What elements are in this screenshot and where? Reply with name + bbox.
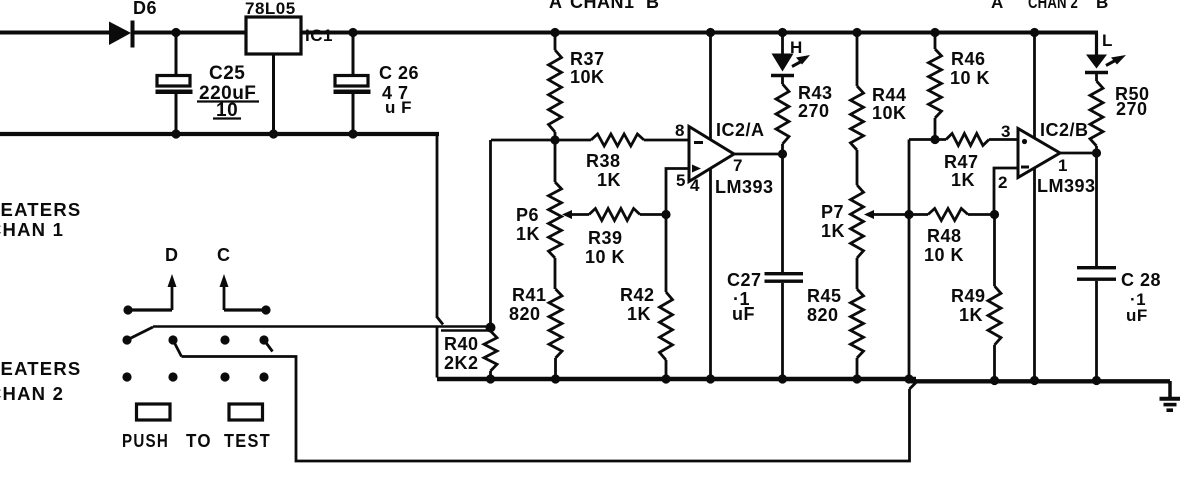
svg-text:TO: TO bbox=[186, 430, 212, 451]
wire: vertical from lower rail down left of R40 bbox=[436, 134, 439, 318]
junction lower rail / IC1 gnd bbox=[269, 129, 278, 138]
svg-text:CHAN1: CHAN1 bbox=[570, 0, 635, 12]
junction top rail / R37 bbox=[550, 28, 559, 37]
junction bottom rail / R42 bbox=[661, 374, 670, 383]
wire: vertical R47 node to bottom rail bbox=[908, 140, 911, 380]
svg-text:TEST: TEST bbox=[224, 430, 271, 451]
ground symbol bbox=[1168, 381, 1172, 397]
junction output / R43 / C27 bbox=[778, 149, 787, 158]
potentiometer P6 bbox=[554, 140, 557, 182]
resistor R47 bbox=[946, 134, 989, 146]
svg-text:8: 8 bbox=[675, 121, 685, 140]
svg-text:1K: 1K bbox=[821, 221, 845, 241]
capacitor C28 bbox=[1095, 153, 1098, 266]
lower contact dots bbox=[122, 372, 131, 381]
svg-text:HEATERS: HEATERS bbox=[0, 199, 81, 220]
svg-text:C: C bbox=[217, 245, 231, 265]
node C arrow bbox=[223, 285, 226, 310]
junction R40 top node bbox=[486, 323, 496, 333]
contact dot bbox=[123, 305, 132, 314]
svg-text:IC2/B: IC2/B bbox=[1040, 120, 1089, 140]
svg-text:4: 4 bbox=[690, 176, 700, 195]
svg-text:A: A bbox=[549, 0, 563, 12]
svg-text:B: B bbox=[646, 0, 660, 12]
svg-text:L: L bbox=[1102, 31, 1113, 50]
switch 1 upper contact wires bbox=[128, 308, 172, 311]
svg-text:D6: D6 bbox=[133, 0, 157, 18]
resistor R50 bbox=[1095, 73, 1098, 82]
IC2/B power line crossing bbox=[1033, 34, 1036, 138]
resistor R37 bbox=[554, 34, 557, 50]
svg-text:R44: R44 bbox=[872, 85, 907, 105]
svg-text:1K: 1K bbox=[951, 170, 975, 190]
LED H bbox=[781, 34, 784, 54]
wire: node down to R40 bbox=[489, 140, 492, 328]
svg-text:uF: uF bbox=[732, 304, 755, 324]
capacitor C25 bbox=[175, 34, 178, 75]
resistor R43 bbox=[781, 76, 784, 85]
switch wire to R40 node bbox=[153, 325, 490, 328]
wire: 78L05 ground stub bbox=[272, 54, 275, 134]
junction bottom rail / R47 node bbox=[904, 374, 913, 383]
wire: R47 node line bbox=[909, 138, 946, 141]
svg-text:R46: R46 bbox=[951, 49, 986, 69]
IC2/B minus marker bbox=[1021, 166, 1029, 169]
svg-text:CHAN 1: CHAN 1 bbox=[0, 219, 64, 240]
wire: top rail diode to regulator bbox=[131, 31, 246, 35]
svg-text:R43: R43 bbox=[798, 83, 833, 103]
wire: top supply rail segment before diode bbox=[0, 31, 111, 35]
wire: inverting node line to R38 and pin 8 bbox=[491, 139, 591, 142]
push button 1 bbox=[137, 404, 171, 420]
svg-text:H: H bbox=[790, 38, 803, 57]
contact dot bbox=[220, 335, 229, 344]
svg-text:A: A bbox=[991, 0, 1004, 12]
svg-text:D: D bbox=[165, 245, 179, 265]
svg-text:R49: R49 bbox=[951, 286, 986, 306]
svg-text:R47: R47 bbox=[944, 152, 979, 172]
op-amp IC2/B triangle bbox=[1018, 129, 1060, 178]
wire R47 to op-amp in+ bbox=[989, 138, 1018, 141]
LED H arrow bbox=[792, 61, 803, 67]
switch 2 second lever bbox=[264, 340, 273, 352]
junction top rail / C25 bbox=[171, 28, 180, 37]
svg-text:1K: 1K bbox=[597, 170, 621, 190]
svg-text:R37: R37 bbox=[570, 49, 605, 69]
resistor R48 bbox=[928, 209, 968, 221]
node D arrow bbox=[171, 285, 174, 310]
svg-text:B: B bbox=[1096, 0, 1109, 12]
svg-text:P6: P6 bbox=[516, 205, 539, 225]
svg-text:10 K: 10 K bbox=[924, 245, 964, 265]
switch 1 lever bbox=[127, 327, 153, 340]
junction bottom rail / R41 bbox=[551, 374, 560, 383]
resistor R38 bbox=[591, 134, 644, 146]
LED L bbox=[1095, 33, 1098, 55]
svg-text:HEATERS: HEATERS bbox=[0, 358, 81, 379]
svg-text:R45: R45 bbox=[807, 286, 842, 306]
switch 2 lever bbox=[173, 340, 182, 357]
svg-text:P7: P7 bbox=[821, 202, 844, 222]
svg-text:IC2/A: IC2/A bbox=[716, 120, 765, 140]
svg-text:C27: C27 bbox=[727, 270, 762, 290]
resistor R49 bbox=[993, 215, 996, 287]
svg-text:10 K: 10 K bbox=[585, 247, 625, 267]
junction bottom rail / R45 bbox=[852, 374, 861, 383]
svg-text:1K: 1K bbox=[959, 305, 983, 325]
junction lower rail / C26 bbox=[348, 129, 357, 138]
svg-text:820: 820 bbox=[509, 304, 541, 324]
junction output / R50 / C28 bbox=[1092, 148, 1101, 157]
IC2/A plus input arrow marker bbox=[692, 165, 701, 173]
svg-text:C 26: C 26 bbox=[379, 63, 419, 83]
resistor R44 bbox=[856, 34, 859, 86]
switch 2 loop wire bbox=[182, 357, 910, 462]
junction top rail / IC2B supply bbox=[1030, 28, 1039, 37]
wire: lower-left return rail bbox=[0, 132, 439, 136]
junction top rail / IC2A supply bbox=[706, 28, 715, 37]
svg-text:C 28: C 28 bbox=[1121, 270, 1161, 290]
diode D6 bbox=[109, 22, 131, 46]
regulator IC1 78L05 box bbox=[246, 17, 301, 54]
svg-text:2K2: 2K2 bbox=[444, 353, 479, 373]
push button 2 bbox=[229, 404, 263, 420]
resistor R41 bbox=[554, 258, 557, 289]
svg-text:LM393: LM393 bbox=[715, 177, 774, 197]
resistor R46 bbox=[934, 34, 937, 49]
svg-text:5: 5 bbox=[676, 171, 686, 190]
svg-text:uF: uF bbox=[1126, 306, 1148, 325]
junction R46 / R47 node bbox=[930, 135, 939, 144]
svg-text:CHAN 2: CHAN 2 bbox=[1028, 0, 1078, 12]
P6 wiper arrow bbox=[562, 210, 572, 219]
junction node / R37 / P6 bbox=[550, 135, 559, 144]
svg-text:R38: R38 bbox=[586, 151, 621, 171]
svg-text:1: 1 bbox=[1058, 156, 1068, 175]
junction bottom rail / R40 bbox=[486, 374, 495, 383]
junction R48 / in- / R49 bbox=[990, 210, 999, 219]
junction bottom rail / IC2A gnd bbox=[706, 374, 715, 383]
junction top rail / R46 bbox=[930, 28, 939, 37]
IC2/B plus marker bbox=[1022, 139, 1027, 144]
potentiometer P7 bbox=[856, 150, 859, 185]
junction lower rail / C25 bbox=[171, 129, 180, 138]
svg-text:270: 270 bbox=[798, 101, 830, 121]
P7 wiper arrow bbox=[864, 210, 874, 219]
svg-text:1K: 1K bbox=[516, 224, 540, 244]
svg-text:2: 2 bbox=[998, 173, 1008, 192]
junction top rail / R44 bbox=[852, 28, 861, 37]
svg-text:10K: 10K bbox=[872, 103, 907, 123]
wire: IC2/B output bbox=[1060, 152, 1097, 155]
svg-text:PUSH: PUSH bbox=[122, 430, 169, 451]
wire: R48 to op-amp in- bbox=[994, 168, 1018, 215]
svg-text:CHAN 2: CHAN 2 bbox=[0, 383, 64, 404]
svg-text:7: 7 bbox=[733, 156, 743, 175]
op-amp IC2/A triangle bbox=[689, 127, 734, 182]
svg-text:C25: C25 bbox=[209, 63, 245, 84]
capacitor C27 bbox=[781, 154, 784, 272]
svg-text:R41: R41 bbox=[512, 285, 547, 305]
svg-text:10K: 10K bbox=[570, 67, 605, 87]
svg-text:3: 3 bbox=[1001, 122, 1011, 141]
junction R39 / in+ / R42 bbox=[661, 210, 670, 219]
capacitor C26 bbox=[352, 34, 355, 75]
junction top rail / LED H bbox=[778, 28, 787, 37]
wire R38 to op-amp in- bbox=[644, 139, 689, 142]
svg-text:LM393: LM393 bbox=[1037, 176, 1096, 196]
junction top rail / C26 bbox=[348, 28, 357, 37]
wire: op-amp in+ from junction bbox=[666, 169, 689, 215]
junction bottom rail / C28 bbox=[1092, 376, 1101, 385]
wire: IC2/A output bbox=[734, 153, 783, 156]
IC2/A minus marker bbox=[694, 141, 703, 144]
IC2/A power line crossing bbox=[709, 34, 712, 139]
svg-text:R48: R48 bbox=[927, 226, 962, 246]
svg-text:R42: R42 bbox=[620, 285, 655, 305]
LED L arrow bbox=[1106, 60, 1117, 66]
contact dot bbox=[261, 305, 270, 314]
bottom ground rail left part bbox=[437, 377, 916, 381]
resistor R40 bbox=[484, 331, 497, 371]
svg-text:270: 270 bbox=[1116, 99, 1148, 119]
resistor R39 bbox=[589, 209, 640, 221]
contact dot bbox=[168, 335, 177, 344]
svg-text:1K: 1K bbox=[627, 304, 651, 324]
contact dot bbox=[259, 335, 268, 344]
svg-text:78L05: 78L05 bbox=[245, 0, 296, 18]
wire R39 to junction bbox=[640, 213, 666, 216]
resistor R42 bbox=[665, 215, 668, 293]
junction bottom rail / R49 bbox=[990, 376, 999, 385]
contact dot bbox=[122, 335, 131, 344]
svg-text:R39: R39 bbox=[588, 228, 623, 248]
svg-text:IC1: IC1 bbox=[305, 26, 333, 45]
junction wiper line / vertical bbox=[904, 210, 913, 219]
bottom ground rail right part bbox=[911, 379, 1170, 383]
wire: top rail regulator to right end bbox=[301, 31, 1098, 35]
svg-text:R40: R40 bbox=[444, 334, 479, 354]
junction bottom rail / IC2B gnd bbox=[1030, 376, 1039, 385]
svg-text:10 K: 10 K bbox=[950, 68, 990, 88]
resistor R45 bbox=[856, 258, 859, 289]
junction bottom rail / C27 bbox=[778, 374, 787, 383]
svg-text:u F: u F bbox=[385, 98, 412, 117]
svg-text:820: 820 bbox=[807, 305, 839, 325]
